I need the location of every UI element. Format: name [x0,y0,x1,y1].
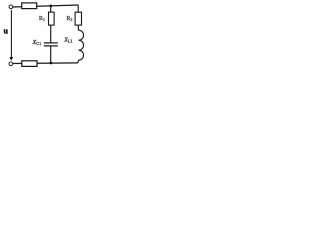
resistor R2 (vertical box) [75,12,81,25]
svg-text:XC1: XC1 [32,39,42,46]
node B (bottom junction dot) [50,62,53,65]
wire: top-right corner down to R2 [77,5,79,12]
resistor (series box in top conductor, unlabeled) [22,3,37,9]
svg-text:u: u [4,27,9,36]
wire: R2 down to inductor L1 [77,25,79,30]
wire: top conductor from input terminal to top-right corner [13,5,79,7]
terminal b (bottom-left input, open circle) [9,62,13,66]
svg-text:XL1: XL1 [63,37,72,44]
inductor L1 (coil of three right-bulging arcs) [76,30,83,63]
voltage arrow u (shaft) [10,10,12,58]
voltage arrow u (head) [9,57,13,61]
resistor (series box in bottom conductor, unlabeled) [22,61,37,67]
wire: bottom return conductor [13,62,78,65]
resistor R1 (vertical box) [49,12,55,25]
capacitor C1 top plate [44,42,58,43]
svg-text:R1: R1 [39,16,45,22]
node A (top junction dot) [49,5,52,8]
background [0,0,86,75]
wire: capacitor C1 down to node B [50,46,52,63]
terminal a (top-left input, open circle) [9,5,13,9]
wire: node A down to R1 [50,6,52,12]
wire: R1 down to capacitor C1 [50,25,52,42]
capacitor C1 bottom plate [44,45,58,46]
svg-text:R2: R2 [66,16,72,22]
